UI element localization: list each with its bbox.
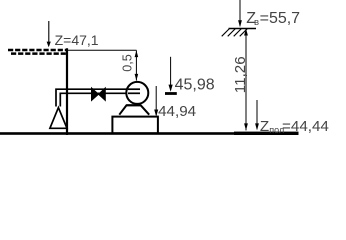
svg-text:=44,44: =44,44 (282, 118, 329, 135)
svg-text:0,5: 0,5 (120, 54, 134, 72)
floor datum bar at Zpol mark (234, 132, 299, 135)
dimension 0,5 (120, 50, 138, 80)
svg-text:Z: Z (260, 118, 269, 135)
ground line at Zv (229, 28, 257, 30)
foundation block (112, 117, 157, 134)
elevation mark 45,98 (pump axis) (165, 57, 215, 94)
tank wall (66, 48, 68, 135)
floor line (0, 132, 250, 135)
gate valve on suction pipe (92, 88, 106, 101)
water surface dashed line (tank level) (8, 50, 68, 54)
elevation mark Zpol=44,44 (floor level) (255, 100, 329, 135)
elevation mark Z=47,1 (47, 21, 99, 48)
svg-text:11,26: 11,26 (232, 56, 249, 93)
pump circle (126, 82, 148, 104)
extension line from water level (67, 49, 137, 51)
ground hatches (222, 29, 248, 37)
svg-text:Z=47,1: Z=47,1 (55, 32, 99, 48)
pump support trapezoid (119, 105, 149, 114)
svg-text:в: в (254, 17, 259, 28)
pipe stubs inside pump (128, 89, 140, 93)
foot valve (strainer) triangle (50, 108, 67, 129)
elevation mark Zv=55,7 (water tower level) (238, 0, 300, 28)
svg-text:44,94: 44,94 (158, 103, 196, 120)
svg-text:45,98: 45,98 (175, 77, 215, 94)
vertical dimension 11,26 (232, 29, 249, 131)
svg-text:=55,7: =55,7 (260, 10, 301, 27)
suction pipe (double line) (56, 89, 140, 106)
elevation mark 44,94 (foundation top) (154, 86, 196, 120)
